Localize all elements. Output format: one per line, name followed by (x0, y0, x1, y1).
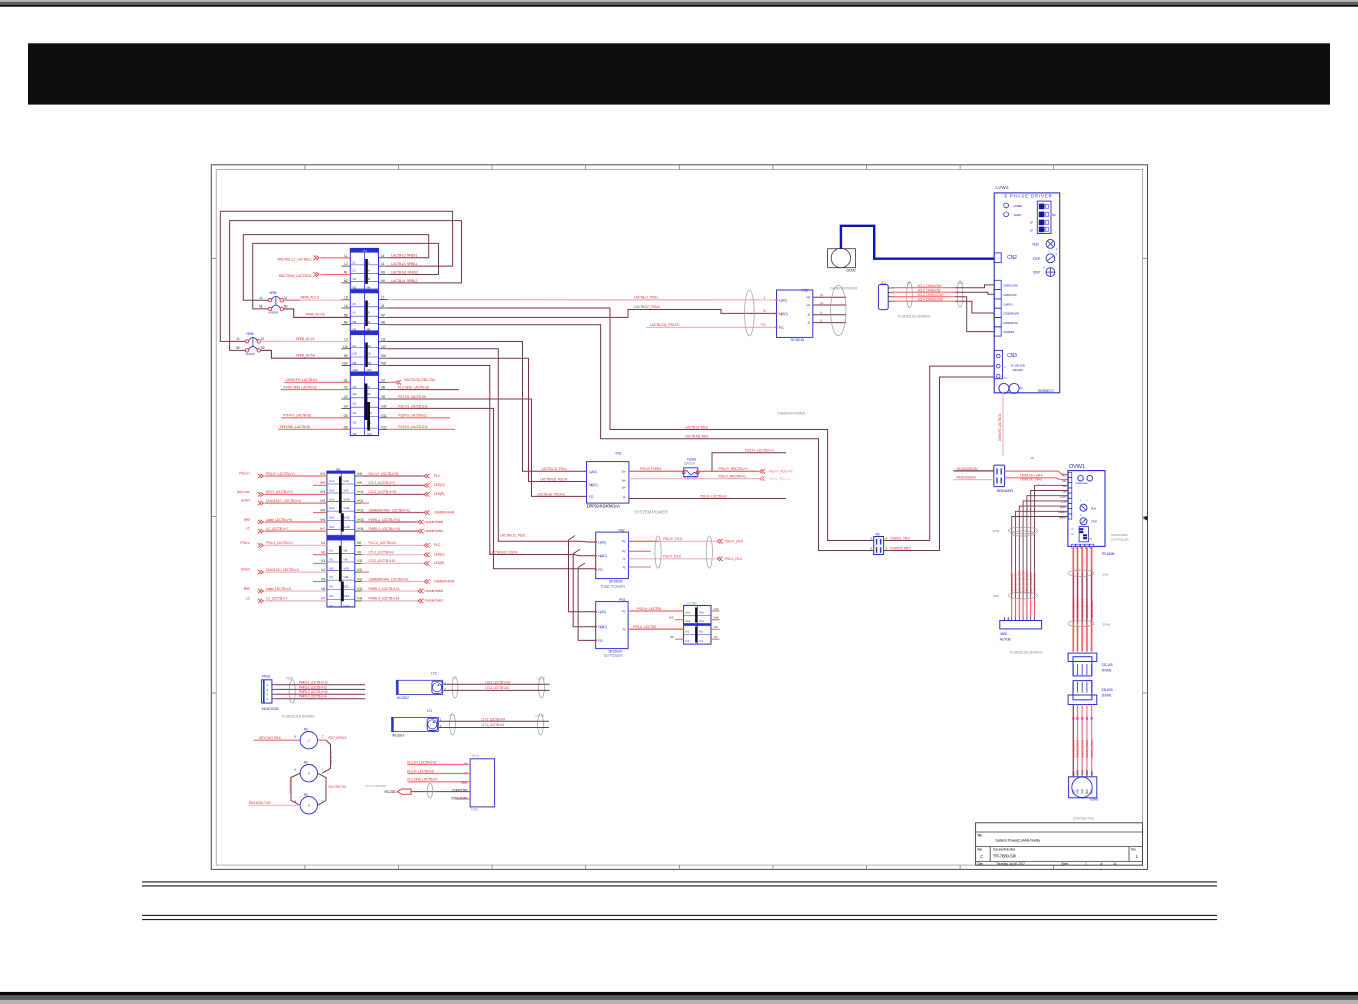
svg-text:DRI-GND_LACTB-G6: DRI-GND_LACTB-G6 (280, 425, 310, 429)
wire PTH FG_LACTB-G5 (281, 417, 350, 419)
svg-text:LT2-1_LDCTB-V+10: LT2-1_LDCTB-V+10 (369, 490, 397, 494)
camera DCM2 (828, 248, 856, 272)
svg-text:JAB1-3_DVW1-LSI+: JAB1-3_DVW1-LSI+ (1033, 572, 1037, 594)
svg-text:G5: G5 (344, 414, 348, 418)
svg-text:NFB5_AC-N5: NFB5_AC-N5 (306, 313, 325, 317)
wire PLC-V+_LDCTB-V+8 (362, 472, 441, 478)
connector JAB1 (1000, 617, 1042, 642)
svg-text:BREAKER: BREAKER (997, 489, 1013, 493)
svg-text:CAMERA FAN-_LDCTB-V-12: CAMERA FAN-_LDCTB-V-12 (369, 577, 409, 581)
svg-text:LT3: LT3 (431, 672, 436, 676)
svg-text:LACTB-N11_PS1-N: LACTB-N11_PS1-N (540, 477, 568, 481)
svg-text:NFB6_AC-L9: NFB6_AC-L9 (296, 337, 314, 341)
svg-text:DVW2-FG_LACTB-G1: DVW2-FG_LACTB-G1 (286, 378, 317, 382)
svg-text:PLC: PLC (434, 474, 441, 478)
svg-text:N9: N9 (353, 361, 357, 365)
svg-text:JDVM1-4_DGM1: JDVM1-4_DGM1 (1085, 740, 1089, 758)
wire PLC-V-_LDCTB-V-8 (407, 773, 470, 775)
wire CN3 N to R8-3 (884, 377, 995, 551)
svg-text:LACTB-L8_R8-6: LACTB-L8_R8-6 (685, 425, 708, 429)
svg-text:KEY1_LDCTB-V+3: KEY1_LDCTB-V+3 (266, 490, 293, 494)
motor DGM1 (1069, 777, 1099, 802)
svg-text:PWR1-4_LDCTB-V-14: PWR1-4_LDCTB-V-14 (299, 695, 327, 699)
svg-text:G2: G2 (344, 386, 348, 390)
cable ellipse LT1 (450, 714, 456, 735)
svg-text:PWR1-1_LDCTB-V+13: PWR1-1_LDCTB-V+13 (369, 518, 401, 522)
svg-text:JDVM1-2_DGM1: JDVM1-2_DGM1 (1076, 740, 1080, 758)
svg-text:SP-240-24: SP-240-24 (609, 580, 623, 584)
svg-text:LT1-2_LDCTB-V-9: LT1-2_LDCTB-V-9 (482, 723, 505, 727)
connector 231-605 JDVM1 (1068, 681, 1113, 705)
svg-text:SYSTEM POWER: SYSTEM POWER (634, 510, 669, 515)
svg-text:DVB1: DVB1 (1102, 572, 1109, 576)
wire LACTB-N12_PS2-N (388, 366, 596, 556)
svg-text:V+4: V+4 (329, 506, 334, 510)
svg-text:PS1-V-_RDCTB-V-1: PS1-V-_RDCTB-V-1 (719, 474, 747, 478)
svg-text:PW11: PW11 (286, 676, 294, 680)
svg-text:SP-320-15: SP-320-15 (791, 338, 805, 342)
LVW2 FG ground terminals (999, 383, 1055, 393)
wire LC_LDCTB-V+7 (246, 527, 327, 534)
LVW2 RUN rotary switch (1033, 240, 1058, 252)
wire JC1-2_DVW2-CW- (892, 291, 956, 293)
svg-text:G2: G2 (353, 392, 357, 396)
svg-text:N: N (1005, 376, 1007, 380)
svg-text:LACTB-L7_PS3-L: LACTB-L7_PS3-L (634, 296, 659, 300)
svg-text:G4: G4 (353, 411, 357, 415)
svg-text:FG: FG (779, 326, 784, 330)
svg-text:V-11: V-11 (343, 575, 348, 579)
terminal block TB1 (341, 248, 387, 436)
svg-text:NFB5: NFB5 (270, 291, 277, 295)
svg-text:PS2-V-_R1-6: PS2-V-_R1-6 (725, 557, 742, 561)
svg-text:N12: N12 (381, 362, 386, 366)
svg-text:PLC-V-_LDCTB-V-8: PLC-V-_LDCTB-V-8 (369, 541, 396, 545)
wire NFB6_AC-N9 (261, 350, 351, 358)
svg-text:G3: G3 (353, 402, 357, 406)
svg-text:key1 com: key1 com (237, 490, 250, 494)
PS3 output wires (813, 294, 847, 323)
svg-text:V+: V+ (622, 479, 626, 483)
svg-text:LED(G): LED(G) (434, 553, 444, 557)
svg-text:R4-6 R5-6 24V: R4-6 R5-6 24V (289, 778, 293, 794)
svg-text:Size: Size (977, 848, 982, 852)
svg-text:V+14: V+14 (343, 534, 350, 538)
svg-text:LACTB-N3_NFB5-2: LACTB-N3_NFB5-2 (391, 270, 418, 274)
svg-text:RACTB-G8_GB1-CN4: RACTB-G8_GB1-CN4 (404, 378, 435, 382)
svg-text:DVW1-C_JDVM-3: DVW1-C_JDVM-3 (1080, 599, 1084, 618)
wire LACTB-L7_PS3-L (388, 299, 777, 301)
wire PS1-V+_LDCTB-V+1 (239, 472, 327, 479)
TB2 left stub (313, 562, 327, 564)
svg-text:JC1-1_DVW2-CW+: JC1-1_DVW2-CW+ (918, 284, 943, 288)
svg-text:TR-515B: TR-515B (1101, 552, 1115, 556)
svg-text:V-9: V-9 (343, 558, 347, 562)
svg-text:module board: module board (425, 589, 443, 593)
wire DVW1-DC-_LDCTB-V-4 (241, 568, 327, 575)
svg-text:AUTOB: AUTOB (1000, 638, 1012, 642)
svg-text:PLC-GND_LACTB-G7: PLC-GND_LACTB-G7 (407, 778, 437, 782)
motor cable net labels (1072, 740, 1094, 758)
svg-text:V-13: V-13 (357, 587, 363, 591)
svg-text:JDVM1: JDVM1 (1101, 669, 1112, 673)
svg-text:PS2-FG_LACTB-G10: PS2-FG_LACTB-G10 (398, 404, 428, 408)
svg-text:Thursday, July 06, 2017: Thursday, July 06, 2017 (996, 862, 1025, 866)
svg-text:TIMING-: TIMING- (1059, 515, 1067, 519)
svg-text:N1: N1 (259, 305, 263, 309)
svg-text:DC-: DC- (1063, 479, 1067, 483)
svg-text:PLC1: PLC1 (472, 754, 480, 758)
bottom separator double line 1 (142, 881, 1217, 883)
wire R4-4 DCB-8 24V (953, 470, 993, 472)
svg-text:LC_LDCTB-V-7: LC_LDCTB-V-7 (266, 597, 287, 601)
cable ellipse jc1 (907, 282, 913, 308)
svg-text:PWR1-1_LDCTB-V+13: PWR1-1_LDCTB-V+13 (299, 681, 328, 685)
svg-text:N6: N6 (353, 327, 357, 331)
TB2 right stub (362, 502, 369, 504)
wire PWR1-2_LDCTB-V-13 (362, 587, 443, 593)
svg-text:RACTB-L1,2_LACTB-L1: RACTB-L1,2_LACTB-L1 (278, 257, 312, 261)
svg-text:CAMERA FAN: CAMERA FAN (434, 510, 455, 514)
svg-text:V+5: V+5 (329, 516, 334, 520)
svg-text:G10: G10 (381, 404, 387, 408)
thick blue wire DCM2 to CN2 (841, 226, 994, 259)
bundle wire net labels (1010, 569, 1037, 594)
svg-text:V-7: V-7 (329, 604, 333, 608)
svg-text:L10: L10 (353, 351, 358, 355)
svg-text:GRN: GRN (1076, 789, 1080, 794)
svg-text:N5: N5 (344, 313, 348, 317)
svg-text:RED: RED (1085, 789, 1089, 794)
svg-text:V+5: V+5 (320, 508, 325, 512)
wire LT1-2_LDCTB-V-9 (362, 551, 445, 557)
TB2 left stub (313, 484, 327, 486)
svg-text:X-RAY GND_LACTB-G2: X-RAY GND_LACTB-G2 (283, 386, 317, 390)
svg-text:LT3-2_LDCTB-V-10: LT3-2_LDCTB-V-10 (485, 686, 509, 690)
svg-text:V+8: V+8 (357, 472, 362, 476)
svg-text:1P: 1P (1030, 229, 1033, 233)
svg-text:JAB1-8_DVW1-TIM+: JAB1-8_DVW1-TIM+ (1014, 571, 1018, 594)
wire PS1-FG_LACTB-G9 (388, 399, 587, 496)
circuit breaker NFB5 (259, 291, 288, 315)
svg-text:L10: L10 (343, 345, 348, 349)
svg-text:V+3: V+3 (699, 611, 704, 615)
wire PLC-GND_LACTB-G7 (407, 781, 470, 783)
PS2 output stubs (628, 550, 651, 552)
svg-text:LC_LDCTB-V+7: LC_LDCTB-V+7 (266, 527, 289, 531)
wire Laser_LDCTB-V-6 (244, 587, 327, 594)
svg-text:PS4-V-_LDCTB2: PS4-V-_LDCTB2 (633, 625, 656, 629)
svg-text:231-605: 231-605 (1101, 688, 1112, 692)
wire R4-8 DCB-8 0V (953, 479, 993, 481)
svg-text:V+1: V+1 (320, 472, 325, 476)
svg-text:To MODULE BOARD: To MODULE BOARD (1009, 650, 1042, 655)
svg-text:CN2: CN2 (1007, 255, 1017, 261)
svg-text:V-: V- (820, 319, 823, 323)
svg-text:200-240V: 200-240V (1013, 368, 1024, 372)
svg-text:LACTB-G9_PS1-FG: LACTB-G9_PS1-FG (537, 492, 565, 496)
svg-text:PW11: PW11 (262, 675, 271, 679)
svg-text:G12: G12 (367, 432, 372, 436)
schematic sheet border frame (211, 165, 1147, 870)
circuit breaker NFB6 (236, 332, 265, 356)
wire LT1-1_LDCTB-V+9 (362, 481, 445, 487)
svg-text:BLU: BLU (1090, 771, 1094, 776)
svg-text:G11: G11 (381, 414, 386, 418)
svg-text:PTH FG_LACTB-G5: PTH FG_LACTB-G5 (283, 414, 311, 418)
svg-text:V-5: V-5 (329, 585, 333, 589)
svg-text:V+12: V+12 (343, 516, 350, 520)
svg-text:System Power(L) AAB-Gantry: System Power(L) AAB-Gantry (995, 838, 1040, 843)
svg-text:V-: V- (820, 311, 823, 315)
svg-text:RUN: RUN (1033, 242, 1040, 246)
svg-text:N(AC): N(AC) (779, 312, 788, 316)
svg-text:CAMERA FAN+_LDCTB-V+12: CAMERA FAN+_LDCTB-V+12 (369, 508, 411, 512)
svg-text:DVW1: DVW1 (241, 568, 250, 572)
title block (976, 823, 1143, 866)
svg-text:V-2: V-2 (685, 639, 689, 643)
LVW2 connector CN3 (994, 350, 1025, 380)
wire PS2-V-_R1-6 (628, 555, 742, 561)
svg-text:V-14: V-14 (343, 604, 349, 608)
TB1 shorting links (366, 259, 369, 431)
wire R4-7 to R5-7 (318, 773, 327, 805)
svg-text:10A 250V: 10A 250V (684, 462, 696, 466)
svg-text:LACTB-N12_PS2-N: LACTB-N12_PS2-N (490, 551, 518, 555)
svg-text:STEP: STEP (1033, 271, 1040, 275)
wire PWR1-3_LDCTB-V+14 (276, 693, 366, 695)
LVW2 connector CN2 (994, 253, 1017, 263)
wire PS1-V-_LDCTB-V-1 (240, 541, 326, 548)
svg-text:RED: RED (1085, 770, 1089, 775)
svg-text:PS4-FG_LACTB-G12: PS4-FG_LACTB-G12 (398, 425, 428, 429)
terminal block LDCTB1 (684, 602, 711, 645)
wire PS2/PS4 shared FG (578, 563, 585, 568)
svg-text:V-10: V-10 (357, 559, 363, 563)
wire LACTB-N7_PS3-N (388, 310, 777, 318)
node RACTB-G8_GB1-CN4 output arrow (388, 378, 435, 384)
wire PS1-V+_RDCTB-V+1 (699, 467, 793, 473)
wire DVW1-DC+_LDCTB-V+4 (241, 499, 327, 506)
svg-text:TOOL PORT: TOOL PORT (451, 796, 468, 800)
svg-text:DVW1-E_JDVM-5: DVW1-E_JDVM-5 (1090, 599, 1094, 618)
wire NFB5_AC-L5 (284, 299, 351, 301)
svg-text:PWR1-3_LDCTB-V+14: PWR1-3_LDCTB-V+14 (299, 690, 328, 694)
svg-text:N12: N12 (367, 368, 372, 372)
svg-text:RS-232C: RS-232C (384, 790, 397, 794)
svg-text:YEW: YEW (1080, 788, 1084, 794)
svg-text:jc1: jc1 (906, 281, 911, 285)
wire R5-8 DCB-7 24V (249, 804, 300, 806)
svg-text:V+13: V+13 (343, 525, 350, 529)
svg-text:PLC-V-_LDCTB-V-8: PLC-V-_LDCTB-V-8 (407, 769, 433, 773)
svg-text:V+: V+ (820, 301, 824, 305)
svg-text:R4-4 DCB-8 24V: R4-4 DCB-8 24V (957, 467, 979, 471)
dc breaker R4 (994, 456, 1034, 493)
svg-text:Date:: Date: (977, 862, 983, 866)
svg-text:2P: 2P (1030, 221, 1033, 225)
wire R4-6 to R5-6 (291, 773, 300, 805)
wire PWR1-3_LDCTB-V+14 (362, 527, 443, 533)
svg-text:LT2: LT2 (452, 676, 457, 680)
svg-text:DVW2-N_R8-3: DVW2-N_R8-3 (890, 546, 910, 550)
fuse FUSE1 THBR-101 (682, 458, 699, 481)
svg-text:PS1-V-_RDC-V-1: PS1-V-_RDC-V-1 (769, 477, 791, 481)
wire PS3 FG_LACTB-G11 (388, 417, 451, 419)
cable shield ellipse PS3 input (745, 290, 755, 336)
svg-text:G6: G6 (353, 432, 357, 436)
svg-text:V+4: V+4 (699, 619, 704, 623)
svg-text:LDCTB: LDCTB (535, 714, 544, 718)
svg-text:LT3-1_LDCTB-V+10: LT3-1_LDCTB-V+10 (485, 680, 510, 684)
svg-text:N2: N2 (261, 346, 265, 350)
svg-text:V+14: V+14 (357, 527, 364, 531)
svg-text:JC1-2_DVW2-CW-: JC1-2_DVW2-CW- (918, 289, 942, 293)
svg-text:V+6: V+6 (329, 525, 334, 529)
relay R8 (870, 532, 887, 554)
wire Laser_LDCTB-V+6 (244, 518, 327, 525)
wire JC1-4_DVW2-CCW- (892, 300, 956, 302)
svg-text:V+2: V+2 (685, 619, 690, 623)
svg-text:R/A: R/A (1052, 213, 1056, 217)
svg-text:CONTROLLER: CONTROLLER (1111, 537, 1129, 541)
svg-text:LACTB-L12_PS2-L: LACTB-L12_PS2-L (500, 534, 526, 538)
svg-text:G1: G1 (344, 378, 348, 382)
svg-text:V+2: V+2 (320, 481, 325, 485)
cable ellipse COM (427, 783, 432, 798)
bottom window bars (0, 992, 1358, 996)
svg-text:JDVM1: JDVM1 (1101, 694, 1112, 698)
svg-text:V-7: V-7 (321, 597, 325, 601)
wire PS1-V+_LDCTB-V+1 (712, 453, 786, 472)
svg-text:DVW1-D_JDVM-4: DVW1-D_JDVM-4 (1085, 599, 1089, 618)
svg-text:LACTB-N8_R8-5: LACTB-N8_R8-5 (685, 435, 708, 439)
svg-text:DCM2: DCM2 (847, 268, 856, 272)
svg-text:14: 14 (1113, 862, 1117, 866)
svg-text:V-3: V-3 (699, 630, 703, 634)
svg-text:V-10: V-10 (343, 566, 349, 570)
svg-text:V-2: V-2 (670, 635, 674, 639)
svg-text:CCW-: CCW- (1061, 500, 1067, 504)
svg-text:V-9: V-9 (357, 551, 361, 555)
wire PWR1-1_LDCTB-V+13 (362, 518, 443, 524)
svg-text:Sheet: Sheet (1061, 862, 1068, 866)
svg-text:N1: N1 (236, 346, 240, 350)
svg-text:N8: N8 (381, 321, 385, 325)
svg-text:N(AC): N(AC) (589, 483, 598, 487)
node RACTB-N2_LACTB-N1 input arrow (279, 272, 351, 278)
svg-text:TUBE POWER: TUBE POWER (600, 584, 625, 589)
svg-text:LACTB-L4_NFB6-1: LACTB-L4_NFB6-1 (391, 262, 418, 266)
svg-text:V+9: V+9 (357, 481, 362, 485)
svg-text:PS1-V-_LDCTB-V-1: PS1-V-_LDCTB-V-1 (700, 494, 727, 498)
svg-text:R3-7 R4-7 9V: R3-7 R4-7 9V (329, 750, 333, 765)
relay R3 (294, 728, 324, 749)
LDCTB1 stubs (669, 607, 720, 639)
svg-text:R5: R5 (304, 793, 308, 797)
wire PS2-V+_R1-5 (628, 537, 743, 543)
LVW2 pulse input cells (994, 280, 1019, 336)
wire PS1-V-_LDCTB-V-1 (629, 498, 786, 500)
svg-text:V-1: V-1 (329, 548, 333, 552)
svg-text:PS1-V-_LDCTB-V-1: PS1-V-_LDCTB-V-1 (266, 541, 293, 545)
svg-text:Document Number: Document Number (993, 848, 1016, 852)
wire PS1-V-_RDCTB-V-1 (629, 474, 791, 481)
svg-text:module board: module board (425, 599, 443, 603)
svg-text:V+12: V+12 (357, 508, 364, 512)
svg-text:V+1: V+1 (329, 479, 334, 483)
cable shield ellipse camera power (831, 285, 846, 335)
svg-text:V-4: V-4 (714, 635, 718, 639)
svg-text:V-12: V-12 (357, 577, 363, 581)
svg-text:5 PHASE DRIVER: 5 PHASE DRIVER (1005, 194, 1053, 199)
svg-text:N(AC): N(AC) (598, 625, 607, 629)
svg-text:PS1-V+_LDCTB-V+1: PS1-V+_LDCTB-V+1 (745, 449, 774, 453)
svg-text:JDVM1-5_DGM1: JDVM1-5_DGM1 (1090, 740, 1094, 758)
svg-text:CAMERA POWER: CAMERA POWER (830, 286, 858, 290)
wire LACTB-N8_R8-5 (388, 325, 874, 551)
svg-text:L(AC): L(AC) (589, 470, 597, 474)
DVW1 left pin cells (1058, 472, 1072, 519)
PLC controller PLC1 (451, 754, 495, 811)
svg-text:V-4: V-4 (329, 575, 333, 579)
TB2 left stub (313, 581, 327, 583)
svg-text:V-3: V-3 (321, 559, 325, 563)
svg-text:PS1-V+ FUSE1: PS1-V+ FUSE1 (640, 467, 662, 471)
svg-text:KEY1-NO_R3-6: KEY1-NO_R3-6 (259, 736, 280, 740)
svg-text:JAB1-9_DVW1-TIM-: JAB1-9_DVW1-TIM- (1010, 572, 1014, 594)
svg-text:CW/PLS+5V: CW/PLS+5V (1003, 293, 1017, 297)
svg-text:WLS28-3: WLS28-3 (392, 733, 404, 737)
svg-text:JC1-4_DVW2-CCW-: JC1-4_DVW2-CCW- (918, 298, 944, 302)
svg-text:G6: G6 (344, 425, 348, 429)
svg-text:LDCTB: LDCTB (536, 676, 545, 680)
svg-text:CCW/DIR+24V: CCW/DIR+24V (1003, 312, 1019, 316)
connector 231-105 JDVM1 (1068, 653, 1113, 676)
TB2 right stub (362, 571, 369, 573)
svg-text:FX3G: FX3G (471, 807, 479, 811)
cable ellipse JDVM1 (1068, 620, 1094, 626)
svg-text:Title: Title (977, 833, 982, 837)
svg-text:RACTB-N2_LACTB-N1: RACTB-N2_LACTB-N1 (279, 274, 312, 278)
svg-text:G3: G3 (344, 395, 348, 399)
svg-text:N10: N10 (342, 362, 347, 366)
svg-text:PS1-FG_LACTB-G9: PS1-FG_LACTB-G9 (398, 395, 426, 399)
wire CAMERA FAN+_LDCTB-V+12 (362, 508, 455, 514)
svg-text:CN3: CN3 (1007, 353, 1017, 359)
svg-text:To MODULE BOARD: To MODULE BOARD (282, 714, 315, 719)
svg-text:V-3: V-3 (329, 566, 333, 570)
svg-text:FG: FG (589, 495, 594, 499)
svg-text:V-1: V-1 (321, 541, 325, 545)
driver module DVW1 (1068, 464, 1105, 546)
svg-text:PS1-V-: PS1-V- (240, 541, 251, 545)
svg-text:PS2-V+_R1-5: PS2-V+_R1-5 (663, 537, 682, 541)
svg-text:NF30-SW: NF30-SW (246, 352, 256, 356)
svg-text:G8: G8 (381, 386, 385, 390)
svg-text:ID POWER: ID POWER (604, 653, 623, 658)
svg-text:To MODULE BOARD: To MODULE BOARD (897, 314, 930, 319)
cable ellipse DVB1 (1068, 570, 1094, 576)
cable ellipse LT2 (452, 677, 458, 698)
svg-text:V+9: V+9 (343, 488, 348, 492)
node RACTB-L1,2_LACTB-L1 input arrow (278, 256, 351, 262)
svg-text:LACTB-L4_NFB6-2: LACTB-L4_NFB6-2 (391, 279, 418, 283)
svg-text:V-1: V-1 (685, 630, 689, 634)
LVW2 STOP rotary switch (1033, 252, 1058, 263)
wire CAMERA FAN-_LDCTB-V-12 (362, 577, 455, 583)
svg-text:LED(G): LED(G) (434, 483, 444, 487)
